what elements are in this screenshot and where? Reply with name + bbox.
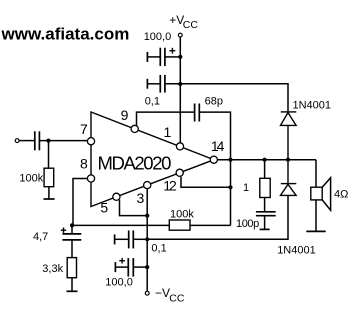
svg-text:5: 5 <box>100 200 108 216</box>
junction dot 0,1/return <box>145 237 149 241</box>
junction dot bus/diode column <box>286 158 290 162</box>
wire resistor 1 to 100p <box>264 198 266 212</box>
wire input cap to pin 7 <box>39 140 87 142</box>
resistor 3,3k <box>67 258 76 278</box>
junction dot input node <box>46 139 50 143</box>
terminator tick 100p <box>260 228 270 230</box>
svg-text:4,7: 4,7 <box>33 231 48 243</box>
terminal -VCC <box>145 291 149 295</box>
speaker box <box>311 187 322 200</box>
capacitor 100p <box>256 212 276 216</box>
terminator tick speaker <box>306 230 325 232</box>
capacitor 68p <box>195 104 200 122</box>
capacitor 100,0 bottom <box>128 258 133 277</box>
plus sign 100,0 bottom <box>119 258 125 264</box>
capacitor 4,7 <box>62 234 81 240</box>
junction dot 4,7 node <box>70 223 74 227</box>
junction dot bus/68p drop <box>228 158 232 162</box>
wire output bus <box>218 159 316 161</box>
wire feedback line 4,7 node to 100k <box>72 224 169 226</box>
pin 5 circle <box>113 193 120 200</box>
op-amp U1 MDA2020 triangle <box>91 112 214 207</box>
capacitor 100,0 top <box>160 48 165 66</box>
wire 100p to tick <box>264 216 266 230</box>
pin 9 circle <box>131 125 138 132</box>
svg-text:100k: 100k <box>170 209 194 221</box>
svg-text:100,0: 100,0 <box>105 276 133 288</box>
terminator tick 0,1 bottom <box>114 234 116 244</box>
junction dot 100,0 bottom <box>145 265 149 269</box>
resistor 100k input <box>44 168 54 187</box>
wire speaker to tick <box>315 200 317 232</box>
terminator tick 100,0 bottom <box>114 262 116 272</box>
resistor 100k feedback <box>169 220 190 230</box>
wire 0,1 cap to diode D1 corner <box>165 84 288 111</box>
capacitor 0,1 bottom <box>129 230 134 248</box>
wire 100,0 bottom right lead <box>133 266 147 268</box>
svg-text:4Ω: 4Ω <box>334 189 348 201</box>
pin 14 circle <box>210 156 217 163</box>
svg-text:8: 8 <box>80 155 88 171</box>
wire pin 3 vertical to -VCC <box>146 189 148 291</box>
junction dot VCC/0,1 <box>178 82 182 86</box>
resistor 1 <box>260 178 270 197</box>
junction dot pin12 line <box>228 185 232 189</box>
svg-text:1: 1 <box>243 182 249 194</box>
terminator tick 0,1 top <box>146 79 148 89</box>
wire +VCC vertical to pin 1 <box>179 37 181 142</box>
wire 0,1 top leads <box>147 83 160 85</box>
svg-text:3: 3 <box>137 190 145 206</box>
svg-text:−V: −V <box>155 286 170 300</box>
capacitor 0,1 top <box>160 75 165 93</box>
wire 0,1 bottom right lead <box>133 238 147 240</box>
node -VCC label <box>155 286 185 305</box>
svg-text:0,1: 0,1 <box>151 243 166 255</box>
wire 100,0 bottom left lead <box>115 266 128 268</box>
svg-text:www.afiata.com: www.afiata.com <box>1 25 130 44</box>
pin 1 circle <box>176 143 183 150</box>
terminal input <box>15 139 19 143</box>
wire input node down <box>48 141 50 169</box>
wire 0,1 bottom left lead <box>115 238 129 240</box>
speaker horn <box>322 178 330 211</box>
pin 8 circle <box>87 175 94 182</box>
node +VCC label <box>169 13 198 31</box>
diode D2 1N4001 <box>281 160 297 196</box>
wire pin 5 drop <box>120 200 148 216</box>
svg-text:100k: 100k <box>19 173 43 185</box>
svg-text:MDA2020: MDA2020 <box>98 152 172 173</box>
pin 7 circle <box>87 138 94 145</box>
svg-text:100p: 100p <box>236 218 259 230</box>
wire 4,7 leads <box>71 225 73 234</box>
diode D1 1N4001 <box>281 112 297 160</box>
terminal +VCC <box>178 33 182 37</box>
svg-text:68p: 68p <box>205 96 223 108</box>
wire pin 9 to 68p <box>137 112 195 126</box>
svg-text:100,0: 100,0 <box>144 31 172 43</box>
pin 3 circle <box>144 182 151 189</box>
speaker LS1 <box>315 160 317 188</box>
svg-text:7: 7 <box>80 121 88 137</box>
junction dot pin5/pin3 line <box>145 214 149 218</box>
capacitor input <box>35 131 40 150</box>
svg-text:1: 1 <box>164 124 172 140</box>
svg-text:3,3k: 3,3k <box>42 263 63 275</box>
terminator tick 100,0 top <box>146 52 148 62</box>
wire 3,3k to tick <box>71 278 73 292</box>
terminator tick 100k input <box>44 198 55 200</box>
svg-text:CC: CC <box>183 19 199 31</box>
wire pin 8 to node <box>73 179 87 226</box>
terminator tick 3,3k <box>67 290 78 292</box>
svg-text:1N4001: 1N4001 <box>293 100 332 112</box>
svg-text:1N4001: 1N4001 <box>277 245 316 257</box>
wire 68p to bus <box>199 112 230 225</box>
svg-text:9: 9 <box>121 107 129 123</box>
plus sign 100,0 top <box>170 48 176 54</box>
plus sign 4,7 <box>61 228 66 233</box>
pin 12 circle <box>176 169 183 176</box>
wire input terminal to cap <box>19 140 34 142</box>
wire pin 12 drop <box>181 177 231 188</box>
junction dot bus/resistor 1 <box>263 158 267 162</box>
wire bus to resistor 1 <box>264 160 266 179</box>
wire 100k feedback to bus drop <box>190 224 231 226</box>
wire 100,0 top leads <box>147 56 160 58</box>
junction dot VCC/100,0 <box>178 55 182 59</box>
wire return line to diode D2 <box>147 195 288 239</box>
wire 100k to tick <box>48 187 50 199</box>
svg-text:CC: CC <box>169 293 185 305</box>
svg-text:0,1: 0,1 <box>145 95 160 107</box>
